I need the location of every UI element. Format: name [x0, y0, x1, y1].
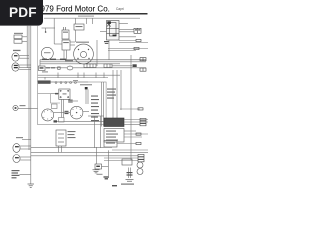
wire: lamp drop 1 [94, 116, 96, 148]
wire: C2 pin B [19, 66, 31, 68]
wire: C2 pin C [19, 69, 31, 71]
wire: CB1 out 2 [124, 121, 148, 123]
connector C2 [12, 63, 19, 71]
terminal T5 [136, 142, 141, 144]
connector C7 [39, 66, 46, 71]
label: top bus [78, 16, 94, 17]
label: connector C3 [16, 137, 23, 138]
wire: C2 pin A [19, 64, 31, 66]
wire: top border bus [44, 17, 140, 19]
wire: drop with splice [45, 28, 47, 32]
module M2 (ignition module) [74, 24, 84, 30]
wire: splice drop 1 [85, 89, 87, 104]
wire: left harness vertical 4 [37, 26, 39, 82]
resistor R1 (ballast) [14, 35, 22, 43]
wire: G2 feed [51, 93, 59, 95]
label: cluster corner [73, 80, 78, 81]
wire: column drop 2 [116, 70, 118, 118]
connector: feed end E2 [140, 68, 146, 71]
wire: third feed [40, 63, 120, 65]
wire: left harness vertical 3 [30, 26, 32, 184]
wire: bus tick 2 [83, 73, 85, 79]
wire: M2 drop [75, 30, 77, 42]
wire: lower bus B [31, 151, 148, 153]
wire: column drop [53, 18, 55, 44]
wire: stub v2 [92, 18, 94, 24]
resistor R2 [127, 172, 133, 176]
wire: FL1 drop a [58, 146, 60, 152]
switch SW1 (ignition switch) [62, 27, 69, 39]
wire: right lower 4 [104, 160, 138, 162]
wire: bus tick 3 [95, 73, 97, 79]
wire: FP1 out 1 [119, 23, 128, 25]
terminal row TR1 [140, 118, 146, 125]
wire: lower bus 1 [38, 74, 120, 76]
wire: cluster inner bus [57, 121, 104, 123]
label: G3 [121, 184, 134, 185]
connector C5 (bulkhead oval) [58, 66, 73, 70]
ground G1 [28, 184, 35, 187]
wire: lamp drop 2 [100, 116, 102, 148]
label column: gauge pins [91, 96, 99, 122]
terminal T2 [134, 47, 139, 49]
wire: long right vertical [130, 55, 132, 160]
wire: bus tick 4 [103, 73, 105, 79]
connector: bus end E1 [140, 58, 146, 61]
wire: A1 sense [96, 40, 98, 66]
wire: to SW1 [54, 43, 62, 45]
instrument cluster box [38, 82, 107, 125]
wire: C4 pin B [20, 159, 31, 161]
wire: splice drop 2 [87, 89, 89, 104]
label: G2 [97, 174, 103, 175]
wire: right bus 1 [108, 48, 148, 50]
ground G3 [126, 180, 134, 182]
svg-text:Capri: Capri [116, 7, 124, 11]
terminal T4 [138, 108, 143, 110]
wire: bus tick a [57, 73, 59, 79]
PDF badge [0, 0, 43, 26]
wire: K1 drop a [63, 50, 65, 60]
label: splice [80, 84, 92, 85]
flasher FL1 [56, 130, 66, 146]
wire: C3 pin A [20, 145, 31, 147]
wire: FP1 drop [108, 40, 110, 60]
wire: FP1 left leads [100, 31, 107, 33]
wire: lower bus A [31, 146, 112, 148]
wire: cluster inner vertical 1 [101, 82, 103, 127]
wire: CB1 out 3 [124, 124, 140, 126]
wire: wrap continuation [51, 81, 88, 83]
wire: second feed [40, 61, 146, 63]
terminal: G4 lead [65, 111, 69, 114]
svg-text:979 Ford Motor Co.: 979 Ford Motor Co. [41, 4, 110, 13]
wire: C meter line [120, 108, 140, 110]
splice block: dark harness wrap [38, 81, 51, 84]
label: connector C1 [13, 50, 21, 51]
label: A1 [76, 42, 89, 43]
terminal: G2 lead [55, 93, 58, 95]
label: L1 [20, 105, 26, 106]
fuse F1 inline [84, 64, 96, 68]
label column: circuit numbers [107, 89, 116, 99]
label block: FL1 [68, 131, 76, 138]
fuse link FL2 [95, 164, 102, 169]
wire: gauge link [54, 112, 71, 114]
wire: K1 drop b [66, 50, 68, 60]
wire: battery feed [20, 174, 31, 176]
wire: fuse drop right b [130, 168, 132, 179]
label: bus 2 tag [65, 60, 73, 61]
relay box FP1 (starter relay group) [104, 21, 119, 45]
connector: sender comp [68, 100, 73, 103]
wire: stub to C3 [22, 139, 31, 141]
gauge: fuel G2 (square) [59, 89, 70, 99]
indicator lamp row [55, 82, 76, 84]
wire: gauge feed h [88, 115, 104, 117]
wire: gauge drop a [61, 99, 63, 117]
relay K1 (start relay) [62, 40, 70, 50]
wire: left harness vertical 1 [26, 26, 28, 68]
wire: K2 out [117, 143, 136, 145]
wire: column drop 1 [112, 70, 114, 118]
node: G3 terminal [54, 120, 58, 122]
connector C1 [12, 53, 19, 61]
wire: CB2 out 3 [124, 136, 142, 138]
node: splice S1 [45, 31, 47, 33]
wire: K1 out 1 [70, 41, 75, 43]
wire: stub v1 [86, 18, 88, 24]
terminal T6 [133, 64, 137, 67]
terminal row TR2 [138, 154, 144, 161]
wire: right lower 3 [104, 157, 138, 159]
wire: C3 pin B [20, 148, 31, 150]
wire: ignition feed top [42, 27, 56, 29]
terminal T3 [136, 133, 141, 135]
wire: stub v0 [75, 18, 77, 24]
wire: FP1 out 3 [119, 31, 134, 33]
label: C7 [42, 71, 48, 72]
svg-text:PDF: PDF [9, 5, 37, 20]
terminal T1 [136, 39, 141, 41]
connector C4 [13, 155, 20, 163]
connector block CB1 (dark) [104, 118, 124, 127]
wire: C1 pin A [19, 54, 29, 56]
battery B+ terminal block [12, 170, 20, 178]
switch SW2 [122, 159, 132, 165]
wire: bus left drop [39, 60, 41, 66]
wire: ground drop center [96, 147, 98, 164]
wire: lower bus C [31, 155, 138, 157]
wire: relay ground drop [107, 150, 109, 176]
wire: text-on-wire segment [46, 67, 55, 68]
connector C6 pair [134, 28, 141, 33]
wire: sender out [73, 100, 78, 102]
wire: FP1 out 5 [119, 42, 148, 44]
wire: K1 out 2 [70, 44, 75, 46]
wire: G4 out [83, 111, 89, 113]
wire: fuse row link 3 [112, 65, 132, 67]
wire: FP1 out 4 [119, 36, 136, 38]
wire: CB2 out 2 [124, 133, 148, 135]
printed circuit board PCB1 [52, 104, 58, 109]
node: cluster feed splice [85, 87, 88, 89]
wire: column drop 3 [120, 70, 122, 110]
wire bus: main feed with labels [40, 59, 146, 60]
wire: cluster sub-panel outline [38, 94, 60, 103]
wire: R1 lower to harness [22, 40, 27, 42]
wire: L1 to center harness [18, 108, 37, 110]
wire: FP1 out 2 [119, 29, 134, 31]
wire: left harness vertical 2 [28, 26, 30, 150]
fuse F2 inline [104, 64, 112, 68]
wire: C1 pin B [19, 57, 29, 59]
wire: FL1 drop b [61, 146, 63, 152]
connector block CB2 [104, 129, 124, 143]
wire: gauge drop b [63, 99, 65, 117]
wire: cluster inner vertical 2 [103, 82, 105, 127]
relay K2 [104, 141, 117, 148]
lamp L1 (oil pressure sender) [13, 105, 18, 110]
wire: R1 to harness [22, 36, 27, 38]
label: R1 value [14, 33, 23, 34]
wire: C4 pin A [20, 156, 31, 158]
alternator A1 [74, 44, 94, 64]
wire: right bus 2 [108, 50, 136, 52]
ground G2 [93, 170, 100, 173]
wire: bus tick 0 [44, 77, 46, 80]
gauge: speedometer G3 [42, 109, 54, 121]
gauge: temperature G4 [70, 106, 83, 119]
wire: accessory feed right [73, 67, 146, 69]
wire: CB2 out 1 [124, 130, 136, 132]
connector C3 [13, 144, 20, 153]
lamp socket row [59, 118, 65, 123]
wire: CB1 out 1 [124, 119, 148, 121]
wire: bus tick 1 [77, 73, 79, 79]
ground G4b [104, 176, 110, 179]
wire: FL2 to relay ground [102, 165, 109, 167]
wire: fuse drop right a [128, 168, 130, 179]
wire: right lower 1 [112, 149, 148, 151]
motor M3 [137, 162, 143, 175]
title underline [38, 13, 148, 15]
wire: lower bus 2 [38, 77, 108, 79]
label: note bottom [112, 185, 117, 186]
gauge: clock M1 [41, 47, 53, 59]
wire: accessory feed [45, 67, 67, 69]
